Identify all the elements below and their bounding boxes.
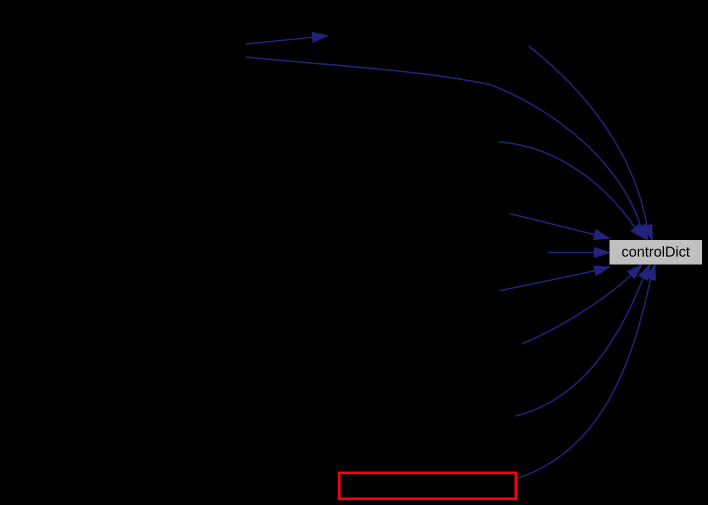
arrowhead edge A — [643, 224, 653, 240]
arrowhead edge H — [646, 265, 656, 281]
wire edge C — [499, 142, 635, 228]
wire edge D — [510, 214, 595, 235]
arrowhead edge E — [594, 266, 610, 276]
wire edge G — [516, 278, 644, 416]
wire edge a1 — [246, 37, 313, 44]
arrowhead edge G — [639, 265, 650, 281]
arrowhead edge M — [594, 248, 609, 258]
wire edge B — [246, 57, 641, 227]
node controlDict box — [610, 240, 703, 265]
arrowhead edge F — [628, 265, 642, 279]
wire edge A — [529, 46, 648, 226]
wire edge H — [517, 279, 651, 479]
node red (truncated, unlabeled) — [339, 473, 516, 499]
wire edge E — [500, 271, 595, 291]
arrowhead edge B — [637, 224, 649, 240]
arrowhead edge D — [594, 230, 610, 240]
node controlDict label — [622, 246, 690, 257]
arrowhead edge a1 — [312, 32, 327, 42]
wire edge F — [522, 275, 632, 344]
arrowhead edge C — [631, 224, 645, 239]
wire edge M — [548, 252, 594, 254]
